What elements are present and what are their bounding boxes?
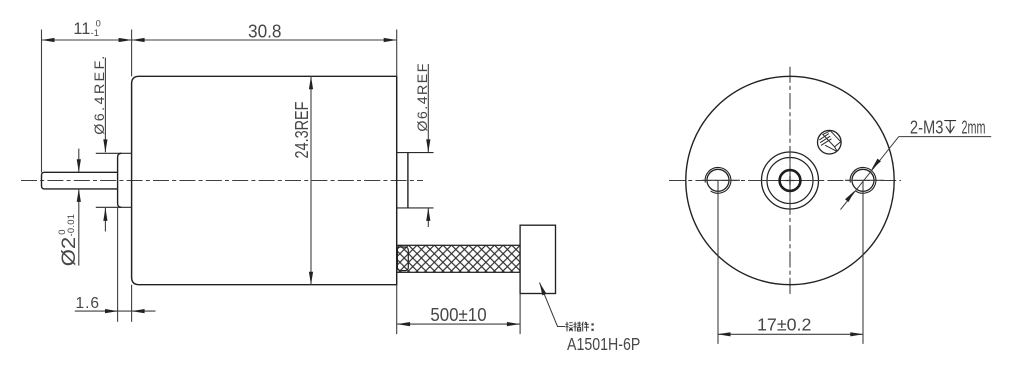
svg-text:2mm: 2mm bbox=[962, 117, 986, 137]
rear hub top face line bbox=[96, 152, 132, 154]
svg-text:500±10: 500±10 bbox=[430, 304, 486, 325]
depth symbol bbox=[944, 121, 956, 133]
connector leader line bbox=[540, 283, 566, 327]
dimension line 30.8 bbox=[132, 39, 397, 41]
dimension line 11 bbox=[42, 39, 132, 41]
right M3 hole center mark bbox=[845, 179, 884, 181]
connector label chinese jie-cha-jian bbox=[565, 322, 593, 332]
motor body outline bbox=[132, 76, 397, 284]
center boss outer circle bbox=[762, 152, 819, 209]
extension line right hole bbox=[862, 180, 864, 344]
M3 holes leader underline bbox=[899, 136, 991, 138]
center mark horizontal bbox=[756, 180, 824, 182]
dimension leader dia6.4 front lower bbox=[427, 208, 429, 227]
right M3 hole minor circle bbox=[852, 169, 874, 191]
centerline shaft axis (side view) bbox=[21, 180, 423, 182]
extension line at shaft end bbox=[41, 30, 43, 173]
dimension leader dia6.4 front upper bbox=[427, 64, 429, 152]
lead wire mesh sleeve bbox=[397, 245, 520, 272]
front bushing top face line bbox=[397, 152, 434, 154]
front bushing end face bbox=[407, 153, 409, 208]
value label dia2 0/-0.01 bbox=[57, 214, 80, 266]
left M3 hole minor circle bbox=[707, 169, 729, 191]
extension line body right edge upper bbox=[396, 30, 398, 77]
extension line connector left edge bbox=[519, 294, 521, 335]
dimension line 1.6 bbox=[75, 310, 156, 312]
extension line body left edge upper bbox=[131, 30, 133, 77]
front bushing bottom face line bbox=[397, 207, 434, 209]
rear hub bottom face line bbox=[96, 206, 132, 208]
dimension line 24.3REF bbox=[310, 76, 312, 284]
dimension line 500+-10 bbox=[397, 323, 520, 325]
dimension leader dia6.4 rear lower bbox=[104, 208, 106, 232]
left M3 hole thread arc bbox=[705, 167, 731, 193]
M3 holes leader diagonal bbox=[841, 137, 899, 210]
shaft circle bbox=[780, 170, 801, 191]
center boss inner circle bbox=[767, 158, 813, 204]
connector body bbox=[520, 225, 555, 293]
dimension leader dia2 upper bbox=[78, 149, 80, 173]
center mark vertical bbox=[789, 147, 791, 214]
extension line body left edge lower bbox=[131, 285, 133, 322]
svg-text:A1501H-6P: A1501H-6P bbox=[567, 334, 640, 354]
left M3 hole center mark bbox=[702, 179, 740, 181]
extension line body right edge lower bbox=[396, 285, 398, 334]
dimension line 17+-0.2 bbox=[718, 333, 864, 335]
svg-text:17±0.2: 17±0.2 bbox=[757, 315, 811, 335]
svg-text:30.8: 30.8 bbox=[248, 21, 282, 42]
extension line left hole bbox=[717, 180, 719, 344]
svg-text:-1: -1 bbox=[91, 28, 99, 38]
svg-text:-0.01: -0.01 bbox=[66, 214, 77, 237]
end cap outline circle bbox=[686, 76, 894, 284]
rear hub end face bbox=[118, 153, 122, 207]
shaft center cross bbox=[786, 176, 795, 185]
svg-text:1.6: 1.6 bbox=[76, 295, 100, 312]
centerline vertical (end view) bbox=[789, 67, 791, 294]
value label dia6.4REF front bbox=[415, 63, 431, 131]
svg-text:24.3REF: 24.3REF bbox=[292, 102, 312, 159]
dimension leader dia2 lower bbox=[78, 189, 80, 266]
svg-text:11: 11 bbox=[73, 20, 90, 38]
svg-text:2-M3: 2-M3 bbox=[910, 117, 944, 137]
svg-text:Ø2: Ø2 bbox=[59, 237, 80, 267]
vent hole key detail bbox=[819, 131, 840, 152]
strain relief grommet bbox=[397, 247, 408, 271]
dimension leader dia6.4 rear upper bbox=[104, 58, 106, 153]
vent hole circle bbox=[818, 130, 842, 154]
right M3 hole thread arc bbox=[850, 167, 876, 193]
extension line hub face bbox=[117, 207, 119, 322]
output shaft bbox=[42, 172, 118, 189]
centerline horizontal (end view) bbox=[669, 180, 901, 182]
value label dia6.4REF. rear bbox=[92, 56, 108, 135]
